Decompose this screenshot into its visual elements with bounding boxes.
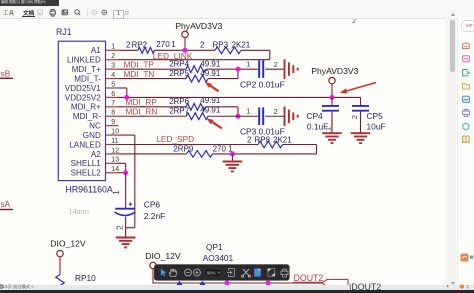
wire row5 VDD25V1 xyxy=(119,87,127,89)
junction row5/row6 xyxy=(124,95,129,100)
wire row14 xyxy=(119,172,126,174)
transistor QP1 symbol (partially hidden) xyxy=(176,281,183,285)
junction rows3/4 xyxy=(236,67,241,72)
ground CP4 xyxy=(322,132,342,134)
pin 7 MDI_R+ xyxy=(106,106,119,108)
resistor RP3 2K21 xyxy=(215,47,241,54)
wire row7 xyxy=(119,106,187,108)
annotation arrow 3 xyxy=(347,83,376,91)
pin 3 MDI_T+ xyxy=(106,68,119,70)
resistor RP4 49.91 xyxy=(186,66,206,73)
junction row12/ground xyxy=(230,151,235,156)
wire row6 rail to PhyAVD3V3 xyxy=(119,96,361,98)
junction bottom 1 xyxy=(225,281,230,286)
wire row4 xyxy=(119,78,187,80)
pin 2 LINKLED xyxy=(106,59,119,61)
capacitor CP4 0.1uF xyxy=(331,97,333,105)
wire row4 right + up xyxy=(208,78,238,80)
pin 5 VDD25V1 xyxy=(106,87,119,89)
ground (sideways) CP2 xyxy=(284,59,286,79)
connector RJ1 xyxy=(58,41,105,180)
wire CP2 to ground xyxy=(265,68,284,70)
resistor RP2 270 xyxy=(138,47,155,53)
pin 12 A2 xyxy=(106,153,119,155)
wire row13 xyxy=(119,162,126,164)
capacitor CP6 2.2nF (polarized) xyxy=(115,208,134,210)
junction bottom 2 xyxy=(266,281,271,286)
capacitor CP5 10uF xyxy=(352,105,369,107)
wire rail down to CP5 xyxy=(360,97,362,105)
wire vertical row1-row2 xyxy=(269,50,271,59)
pin 6 VDD25V2 xyxy=(106,96,119,98)
ground (sideways) CP3 xyxy=(284,106,286,126)
pin 1 A1 xyxy=(106,49,119,51)
wire row12 xyxy=(119,153,187,155)
ground CP6 xyxy=(116,237,136,239)
wire row1 to RP3 xyxy=(155,49,216,51)
resistor RP8 2K21 xyxy=(258,141,283,148)
wire row11 right + down xyxy=(283,144,317,146)
pin 14 SHELL2 xyxy=(106,172,119,174)
ground RP9 node xyxy=(231,154,233,161)
capacitor CP2 0.01uF xyxy=(258,60,260,78)
wire row3 to CP2 xyxy=(206,68,259,70)
pin 4 MDI_T- xyxy=(106,78,119,80)
junction rail/power xyxy=(330,95,335,100)
pin 8 MDI_R- xyxy=(106,115,119,117)
pin 13 SHELL1 xyxy=(106,162,119,164)
annotation arrow 1 xyxy=(211,86,219,92)
wire row1 right xyxy=(241,49,270,51)
wire row1 A1 xyxy=(119,49,139,51)
resistor RP6 49.91 xyxy=(186,103,206,110)
wire row8 to CP3 xyxy=(208,115,258,117)
resistor RP5 49.91 xyxy=(186,75,208,82)
wire row7 right + down xyxy=(206,106,239,108)
wire row8 xyxy=(119,115,187,117)
wire row3 xyxy=(119,68,187,70)
wire CP3 to ground xyxy=(265,115,284,117)
resistor RP10 xyxy=(56,275,64,286)
wire bottom net xyxy=(153,282,323,284)
pin 10 GND xyxy=(106,134,119,136)
junction shell xyxy=(123,170,128,175)
ground CP5 xyxy=(351,132,371,134)
junction rows7/8 xyxy=(236,114,241,119)
wire row2 LINKLED / net LED_LINK xyxy=(119,59,270,61)
wire row11 xyxy=(119,144,259,146)
capacitor CP3 0.01uF xyxy=(258,107,260,125)
pin 11 LANLED xyxy=(106,144,119,146)
resistor RP9 270 xyxy=(187,151,213,158)
resistor RP7 49.91 xyxy=(186,113,208,120)
wire row10 GND down to CP6 bottom xyxy=(119,134,135,136)
wire row12 right xyxy=(213,153,317,155)
annotation arrow 2 xyxy=(212,122,222,128)
pin 9 NC xyxy=(106,125,119,127)
wire down to CP6 xyxy=(125,173,127,208)
junction row1/power xyxy=(183,48,188,53)
